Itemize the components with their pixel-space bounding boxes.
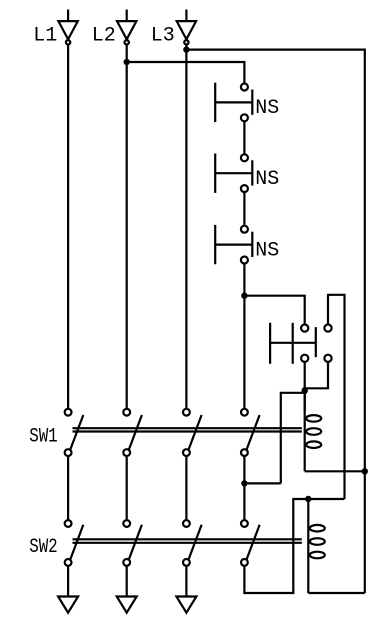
svg-text:SW2: SW2 (29, 536, 58, 559)
wire start left pole bottom to coil SW1 top (304, 362, 306, 412)
wire L2 down to SW1 pole2 (126, 45, 128, 409)
svg-text:L1: L1 (33, 25, 57, 48)
wire node to start button left pole (244, 296, 304, 325)
SW1 pole 1 (65, 409, 84, 456)
SW2 pole 2 (123, 520, 142, 566)
switch SW2 mechanical link bars (73, 539, 302, 543)
wire SW1 pole1 to SW2 pole1 (67, 456, 69, 520)
node on L2 (control feed tap) (124, 59, 130, 65)
SW1 pole 2 (123, 409, 142, 456)
output arrow 1 (58, 597, 78, 613)
wire L1 down to SW1 pole1 (67, 45, 69, 409)
pushbutton NS2 (stop, NC) (215, 154, 252, 193)
wire start right pole bottom joining coil SW1 top (306, 362, 328, 389)
wire start right pole top to coil SW2 feed (328, 295, 345, 499)
switch SW1 mechanical link bars (73, 428, 302, 431)
svg-text:L3: L3 (151, 25, 175, 48)
node coil SW1 top (302, 387, 308, 394)
coil SW2 (308, 499, 325, 593)
wire SW2 pole4 bottom to coil SW2 riser (244, 499, 344, 593)
pushbutton start (2-pole NO) (270, 323, 332, 364)
wire L2 tap to NS chain (127, 62, 245, 84)
SW1 pole 4 (aux seal-in) (241, 409, 260, 456)
terminal L3 (177, 10, 196, 45)
node on L3 (coil return tap) (183, 46, 189, 52)
coil SW1 (305, 391, 322, 472)
node seal-in junction (241, 480, 247, 486)
wire seal branch (SW1 aux) riser (281, 393, 305, 484)
output arrow 2 (117, 597, 137, 613)
output arrow 3 (176, 597, 196, 613)
SW2 pole 4 (aux) (241, 520, 260, 566)
wire SW1 pole3 to SW2 pole3 (185, 456, 187, 520)
wire NS2 to NS3 (243, 192, 245, 226)
terminal L2 (117, 10, 136, 45)
wire SW1 pole4 to SW2 pole4 (243, 456, 245, 520)
wire L3 tap to right-side return bus (186, 50, 364, 593)
pushbutton NS1 (stop, NC) (215, 83, 252, 122)
wire NS3 down to SW1 pole4 (243, 264, 245, 409)
node return bus / coil SW1 (362, 468, 368, 474)
wire SW2 pole1 to output arrow (67, 566, 69, 597)
wire SW2 pole3 to output arrow (185, 566, 187, 597)
SW2 pole 1 (65, 520, 84, 566)
node coil SW2 top (305, 496, 311, 502)
wire SW2 pole2 to output arrow (126, 566, 128, 597)
wire coil SW2 bottom to return bus (308, 592, 365, 594)
wire NS1 to NS2 (243, 121, 245, 154)
SW2 pole 3 (183, 520, 202, 566)
svg-text:L2: L2 (92, 25, 116, 48)
node NS chain / start branch (241, 293, 247, 299)
wire coil SW1 bottom to return bus (305, 470, 365, 472)
wire L3 down to SW1 pole3 (185, 45, 187, 409)
terminal L1 (58, 10, 77, 45)
SW1 pole 3 (183, 409, 202, 456)
wire seal junction to riser (244, 482, 280, 484)
svg-text:NS: NS (255, 239, 279, 262)
wire SW1 pole2 to SW2 pole2 (126, 456, 128, 520)
svg-text:NS: NS (255, 168, 279, 191)
svg-text:SW1: SW1 (29, 425, 58, 448)
svg-text:NS: NS (255, 97, 279, 120)
pushbutton NS3 (stop, NC) (215, 225, 252, 264)
